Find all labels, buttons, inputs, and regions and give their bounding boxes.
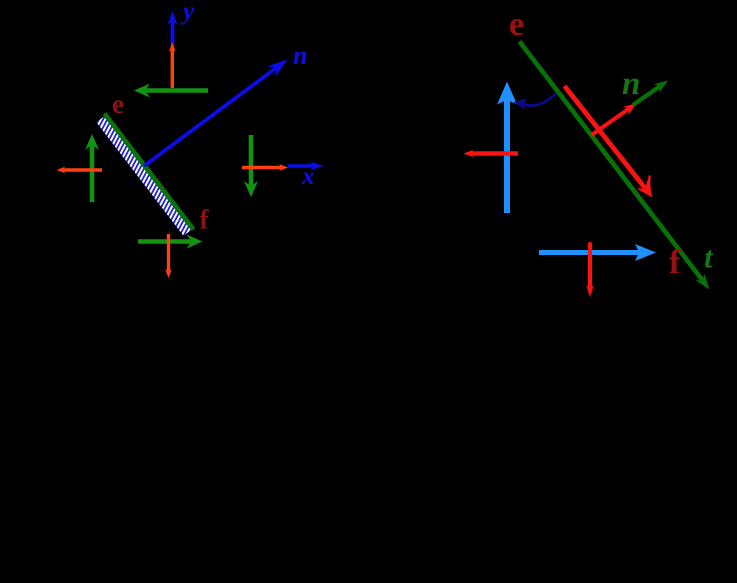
red arrow down (right)	[586, 244, 594, 297]
svg-text:e: e	[509, 6, 524, 43]
svg-text:e: e	[112, 89, 124, 119]
blue horizontal arrow right (right)	[539, 244, 656, 261]
right cross green arrow down	[244, 135, 258, 197]
curved barb spur on red parallel arrowhead	[648, 176, 651, 194]
normal vector arrow n (left)	[144, 60, 288, 167]
bottom cross red arrow down	[165, 234, 172, 278]
svg-text:n: n	[622, 66, 640, 102]
x-axis arrow	[288, 162, 323, 171]
svg-text:x: x	[301, 163, 315, 190]
surface segment e-f (left figure)	[105, 114, 194, 230]
svg-text:y: y	[180, 0, 195, 25]
svg-text:t: t	[704, 240, 714, 275]
svg-text:f: f	[200, 205, 210, 235]
line e-f extended to tangent t (right figure)	[520, 42, 710, 290]
top cross green arrow left	[134, 84, 208, 98]
bottom cross green arrow right	[138, 235, 203, 249]
top cross red arrow up	[169, 42, 176, 88]
left cross red arrow left	[57, 167, 103, 174]
navy angle arc between blue arrow and line	[514, 94, 557, 110]
blue vertical arrow up (right)	[497, 82, 517, 214]
right cross red arrow right	[242, 164, 288, 171]
red arrow left (right)	[464, 150, 519, 157]
y-axis arrow	[168, 11, 178, 46]
red normal arrow (right)	[592, 103, 638, 135]
red arrow parallel to ef (right)	[565, 86, 653, 198]
green normal arrow n (right)	[633, 81, 668, 106]
svg-text:n: n	[293, 41, 307, 70]
svg-text:f: f	[669, 244, 681, 281]
left cross green arrow up	[85, 134, 99, 202]
